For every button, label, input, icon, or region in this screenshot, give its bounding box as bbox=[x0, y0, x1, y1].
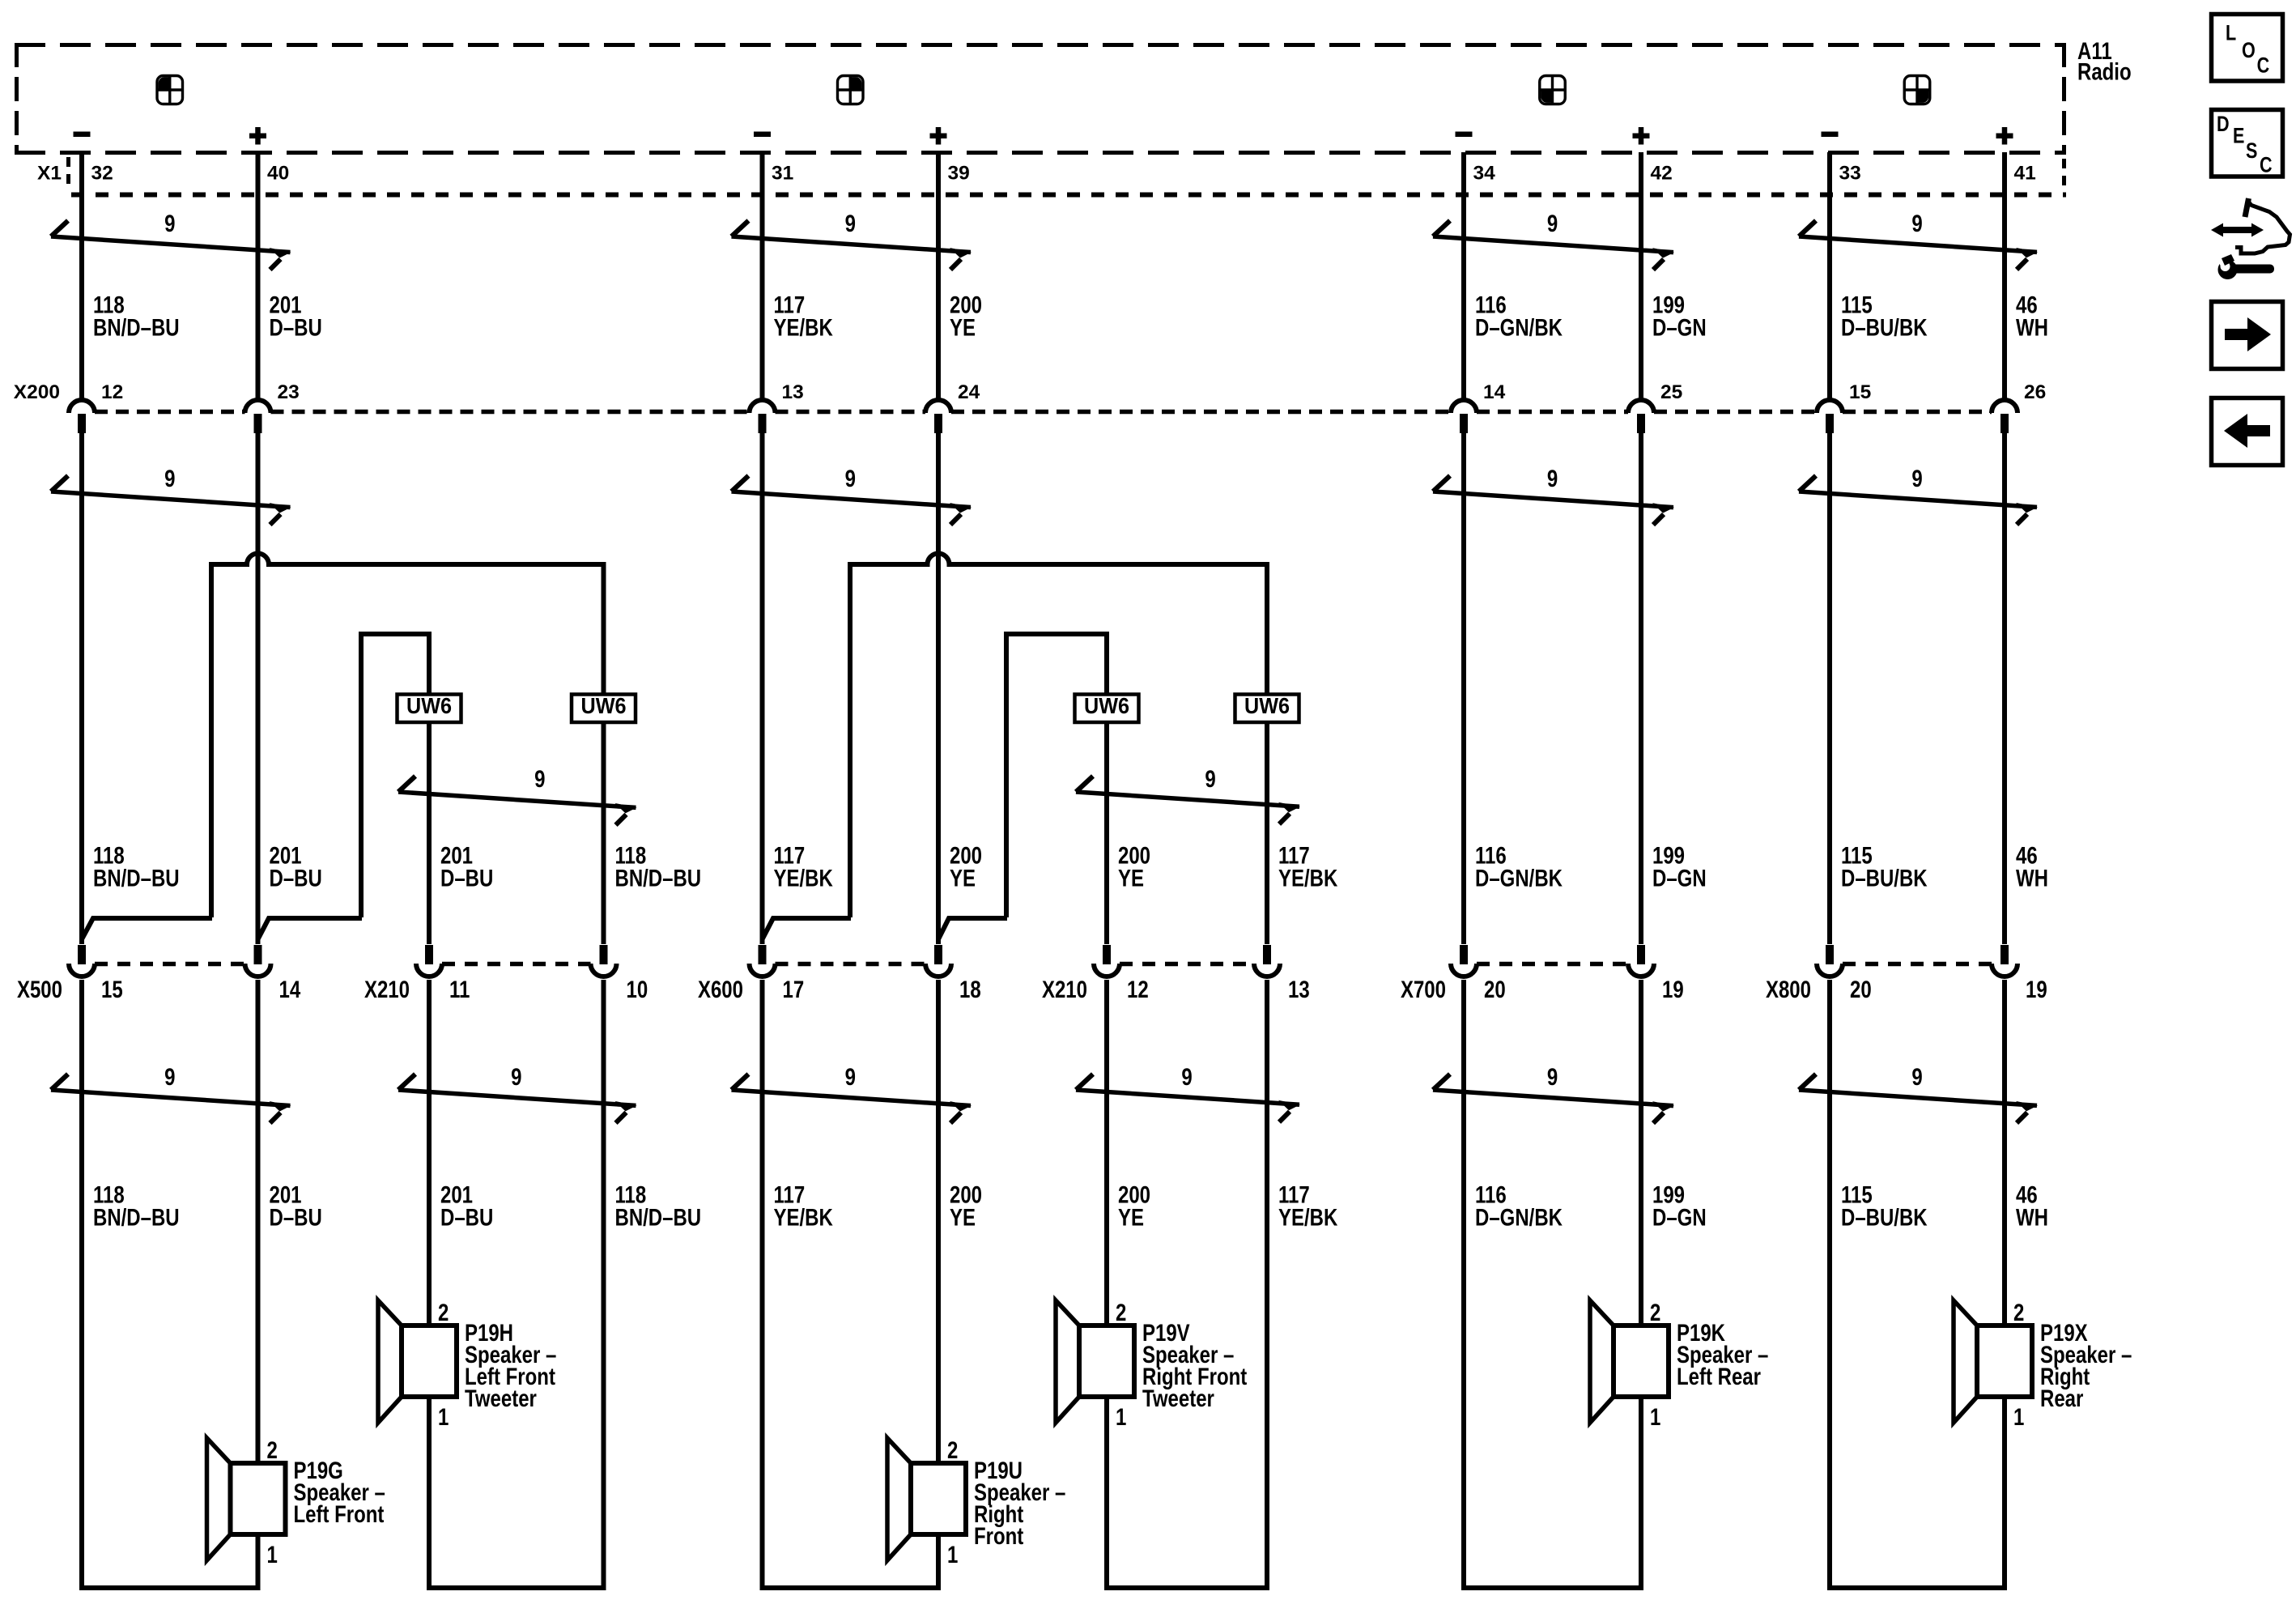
svg-text:2: 2 bbox=[267, 1436, 278, 1463]
wire label 200 YE row3 bbox=[950, 1181, 982, 1231]
twisted-pair symbol (9) row4 x530 bbox=[398, 1074, 637, 1123]
polarity minus above pin 33 bbox=[1822, 132, 1839, 138]
svg-text:1: 1 bbox=[438, 1402, 449, 1430]
polarity minus above pin 31 bbox=[754, 132, 771, 138]
wire label 118 BN/D–BU row2 bbox=[615, 841, 702, 891]
svg-text:D–GN: D–GN bbox=[1652, 1203, 1707, 1231]
svg-text:Rear: Rear bbox=[2040, 1384, 2084, 1411]
wire label 200 YE row3 bbox=[1118, 1181, 1150, 1231]
wire label 118 BN/D–BU row3 bbox=[93, 1181, 180, 1231]
speaker P19X Speaker - Right Rear bbox=[1954, 1300, 2032, 1423]
polarity plus above pin 40 bbox=[249, 134, 266, 139]
polarity plus above pin 42 bbox=[1633, 134, 1650, 139]
wire 200 branch hook to X210-12 bbox=[1006, 634, 1107, 917]
connector icon right-rear (quadrant BR) bbox=[1904, 76, 1930, 104]
connector icon left-front (quadrant TL) bbox=[157, 76, 183, 104]
connector terminal X500-15 bbox=[69, 945, 95, 977]
svg-text:2: 2 bbox=[438, 1298, 449, 1326]
svg-text:41: 41 bbox=[2014, 163, 2036, 185]
wire below UW6 x530 bbox=[427, 723, 432, 944]
connector X800 dashed line bbox=[1843, 962, 1992, 967]
connector terminal X210-10 bbox=[591, 945, 617, 977]
wire 118 BN/D-BU radio X1 to X200 bbox=[79, 152, 84, 400]
wire label 201 D–BU row3 bbox=[269, 1181, 321, 1231]
wire label 199 D–GN row3 bbox=[1652, 1181, 1707, 1231]
wire 200 X210-12 to tweeter P19V pin 2 bbox=[1104, 980, 1109, 1328]
wire 200 X600-18 to speaker P19U pin 2 bbox=[936, 980, 941, 1466]
twisted-pair symbol (9) row1 x101 bbox=[51, 221, 291, 270]
wire 118 BN/D-BU X200 down bbox=[79, 432, 84, 944]
wire 200 jog join at X600-18 bbox=[938, 918, 1007, 939]
wire 117 YE/BK X200 down bbox=[760, 432, 765, 944]
wire label 117 YE/BK row3 bbox=[1278, 1181, 1338, 1231]
svg-text:X210: X210 bbox=[1042, 975, 1087, 1002]
svg-text:23: 23 bbox=[278, 381, 300, 403]
wire below UW6 x1565 bbox=[1265, 723, 1269, 944]
svg-text:1: 1 bbox=[1650, 1402, 1660, 1430]
svg-text:9: 9 bbox=[1547, 464, 1558, 491]
svg-text:11: 11 bbox=[449, 975, 470, 1002]
wire label 117 YE/BK row1 bbox=[774, 291, 834, 341]
svg-text:YE: YE bbox=[1118, 864, 1144, 891]
svg-text:9: 9 bbox=[845, 1062, 856, 1090]
svg-text:UW6: UW6 bbox=[406, 693, 452, 719]
wire label 117 YE/BK row2 bbox=[774, 841, 834, 891]
connector X200 dashed line bbox=[95, 410, 1992, 415]
wire label 117 YE/BK row2 bbox=[1278, 841, 1338, 891]
wire label 117 YE/BK row3 bbox=[774, 1181, 834, 1231]
svg-text:9: 9 bbox=[534, 764, 545, 792]
svg-text:YE: YE bbox=[950, 1203, 976, 1231]
svg-text:D: D bbox=[2217, 113, 2230, 137]
svg-text:31: 31 bbox=[772, 163, 793, 185]
svg-text:YE/BK: YE/BK bbox=[1278, 1203, 1338, 1231]
wire 200 YE radio X1 to X200 bbox=[936, 152, 941, 400]
speaker P19U Speaker - Right Front bbox=[887, 1438, 966, 1560]
svg-text:X800: X800 bbox=[1766, 975, 1811, 1002]
wire 201 D-BU X200 down bbox=[256, 432, 261, 944]
svg-text:YE/BK: YE/BK bbox=[1278, 864, 1338, 891]
wire 201 D-BU radio X1 to X200 bbox=[256, 152, 261, 400]
label P19X Speaker - Right Rear bbox=[2040, 1318, 2132, 1411]
wire label 118 BN/D–BU row2 bbox=[93, 841, 180, 891]
return wire P19H pin 1 to 118 (X210-10) bbox=[429, 1398, 604, 1588]
svg-text:D–BU: D–BU bbox=[269, 1203, 321, 1231]
svg-text:26: 26 bbox=[2024, 381, 2046, 403]
svg-text:9: 9 bbox=[1181, 1062, 1192, 1090]
wire label 200 YE row2 bbox=[950, 841, 982, 891]
connector X200 terminal pin 25 bbox=[1628, 400, 1654, 433]
wire 118 branch rail to X210-10 (with hop over 201) bbox=[211, 554, 604, 918]
svg-text:YE/BK: YE/BK bbox=[774, 1203, 834, 1231]
twisted-pair symbol (9) row4 x1367 bbox=[1076, 1074, 1300, 1122]
twisted-pair symbol (9) row4 x101 bbox=[51, 1074, 291, 1124]
svg-text:BN/D–BU: BN/D–BU bbox=[93, 1203, 180, 1231]
svg-text:D–GN/BK: D–GN/BK bbox=[1475, 1203, 1563, 1231]
connector icon right-front (quadrant TR) bbox=[838, 76, 864, 104]
svg-text:BN/D–BU: BN/D–BU bbox=[615, 864, 702, 891]
svg-text:E: E bbox=[2233, 124, 2244, 148]
return wire P19K pin 1 to 116 bbox=[1464, 1398, 1641, 1588]
option connector UW6 at x1565 bbox=[1235, 693, 1299, 722]
connector terminal X800-20 bbox=[1817, 945, 1843, 977]
connector X200 terminal pin 15 bbox=[1817, 400, 1843, 433]
svg-text:12: 12 bbox=[1127, 975, 1149, 1002]
connector X200 terminal pin 12 bbox=[69, 400, 95, 433]
svg-text:C: C bbox=[2260, 153, 2273, 177]
wire label 201 D–BU row2 bbox=[440, 841, 493, 891]
svg-text:2: 2 bbox=[1116, 1298, 1126, 1326]
svg-text:YE/BK: YE/BK bbox=[774, 864, 834, 891]
label P19H Speaker - Left Front Tweeter bbox=[465, 1318, 556, 1411]
label P19V Speaker - Right Front Tweeter bbox=[1142, 1318, 1247, 1411]
svg-text:9: 9 bbox=[845, 464, 856, 491]
wire label 115 D–BU/BK row3 bbox=[1841, 1181, 1928, 1231]
svg-text:13: 13 bbox=[782, 381, 804, 403]
svg-text:X200: X200 bbox=[14, 381, 60, 403]
twisted-pair symbol (9) row4 x941 bbox=[732, 1074, 972, 1124]
wire 118 X210-10 down to tweeter return bbox=[602, 980, 606, 1590]
connector terminal X700-19 bbox=[1628, 945, 1654, 977]
svg-text:O: O bbox=[2242, 39, 2256, 63]
svg-text:20: 20 bbox=[1850, 975, 1872, 1002]
wire label 115 D–BU/BK row2 bbox=[1841, 841, 1928, 891]
wire 199 D-GN radio X1 to X200 bbox=[1639, 152, 1643, 400]
icon LOC box bbox=[2212, 15, 2283, 82]
connector X210 dashed line (11-10) bbox=[442, 962, 591, 967]
wire 117 branch rail to X210-13 (with hop over 200) bbox=[850, 554, 1267, 918]
wire 118 X500-15 to splice/speaker return bbox=[79, 980, 84, 1590]
svg-text:15: 15 bbox=[101, 975, 123, 1002]
svg-text:WH: WH bbox=[2016, 313, 2048, 341]
svg-text:X700: X700 bbox=[1401, 975, 1446, 1002]
wire 201 X210-11 to tweeter P19H pin 2 bbox=[427, 980, 432, 1328]
svg-text:17: 17 bbox=[782, 975, 804, 1002]
svg-text:BN/D–BU: BN/D–BU bbox=[615, 1203, 702, 1231]
svg-text:34: 34 bbox=[1473, 163, 1496, 185]
svg-text:1: 1 bbox=[1116, 1402, 1126, 1430]
wire label 201 D–BU row3 bbox=[440, 1181, 493, 1231]
wire 117 jog join at X600-17 bbox=[763, 918, 852, 939]
svg-text:D–GN: D–GN bbox=[1652, 313, 1707, 341]
label P19U Speaker - Right Front bbox=[974, 1456, 1065, 1549]
label P19G Speaker - Left Front bbox=[293, 1456, 385, 1527]
connector X200 terminal pin 13 bbox=[750, 400, 776, 433]
connector icon left-rear (quadrant BL) bbox=[1540, 76, 1566, 104]
svg-text:Tweeter: Tweeter bbox=[1142, 1384, 1214, 1411]
connector X200 terminal pin 14 bbox=[1451, 400, 1477, 433]
svg-text:9: 9 bbox=[1911, 464, 1922, 491]
wire 116 D-GN/BK radio X1 to X200 bbox=[1461, 152, 1466, 400]
polarity minus above pin 34 bbox=[1456, 132, 1473, 138]
twisted-pair symbol (9) row1 x2260 bbox=[1799, 221, 2038, 270]
svg-text:1: 1 bbox=[2013, 1402, 2024, 1430]
svg-text:D–BU/BK: D–BU/BK bbox=[1841, 313, 1928, 341]
wire label 46 WH row2 bbox=[2016, 841, 2048, 891]
svg-text:D–GN: D–GN bbox=[1652, 864, 1707, 891]
twisted-pair symbol (9) row4 x1808 bbox=[1433, 1074, 1674, 1124]
twisted-pair symbol (9) row4 x2260 bbox=[1799, 1074, 2038, 1123]
svg-text:Front: Front bbox=[974, 1521, 1023, 1549]
svg-text:D–BU/BK: D–BU/BK bbox=[1841, 864, 1928, 891]
speaker P19V Speaker - Right Front Tweeter bbox=[1056, 1300, 1134, 1423]
svg-text:18: 18 bbox=[959, 975, 981, 1002]
wire label 46 WH row3 bbox=[2016, 1181, 2048, 1231]
svg-text:9: 9 bbox=[1547, 209, 1558, 236]
wire 116 X700-20 down to speaker return bbox=[1461, 980, 1466, 1590]
wire label 115 D–BU/BK row1 bbox=[1841, 291, 1928, 341]
svg-text:YE: YE bbox=[950, 313, 976, 341]
connector terminal X600-18 bbox=[925, 945, 951, 977]
svg-text:BN/D–BU: BN/D–BU bbox=[93, 864, 180, 891]
option connector UW6 at x745 bbox=[572, 693, 636, 722]
svg-text:S: S bbox=[2246, 139, 2257, 164]
connector terminal X210-13 bbox=[1254, 945, 1280, 977]
wire label 200 YE row2 bbox=[1118, 841, 1150, 891]
svg-text:UW6: UW6 bbox=[1244, 693, 1290, 719]
option connector UW6 at x1367 bbox=[1075, 693, 1139, 722]
return wire P19V pin 1 to 117 (X210-13) bbox=[1107, 1398, 1267, 1588]
wire label 199 D–GN row2 bbox=[1652, 841, 1707, 891]
svg-text:X500: X500 bbox=[17, 975, 62, 1002]
svg-text:D–BU: D–BU bbox=[269, 313, 321, 341]
svg-text:2: 2 bbox=[947, 1436, 958, 1463]
svg-text:24: 24 bbox=[958, 381, 980, 403]
connector X1 dotted line bbox=[69, 157, 2067, 195]
wire 115 D-BU/BK radio X1 to X200 bbox=[1827, 152, 1832, 400]
svg-text:9: 9 bbox=[511, 1062, 521, 1090]
svg-text:14: 14 bbox=[1483, 381, 1506, 403]
wire below UW6 x745 bbox=[602, 723, 606, 944]
connector terminal X210-12 bbox=[1094, 945, 1120, 977]
return wire P19G pin 1 to 118 bbox=[82, 1536, 258, 1588]
wire 201 X500-14 to speaker P19G pin 2 bbox=[256, 980, 261, 1466]
svg-text:32: 32 bbox=[91, 163, 113, 185]
option connector UW6 at x530 bbox=[398, 693, 461, 722]
svg-text:39: 39 bbox=[948, 163, 970, 185]
connector X200 terminal pin 24 bbox=[925, 400, 951, 433]
svg-text:D–BU: D–BU bbox=[269, 864, 321, 891]
svg-text:Left Front: Left Front bbox=[293, 1500, 384, 1527]
wire label 46 WH row1 bbox=[2016, 291, 2048, 341]
wire label 199 D–GN row1 bbox=[1652, 291, 1707, 341]
wire label 118 BN/D–BU row1 bbox=[93, 291, 180, 341]
connector terminal X700-20 bbox=[1451, 945, 1477, 977]
polarity plus above pin 41 bbox=[1996, 134, 2013, 139]
svg-text:9: 9 bbox=[1547, 1062, 1558, 1090]
svg-text:X600: X600 bbox=[698, 975, 743, 1002]
svg-text:WH: WH bbox=[2016, 864, 2048, 891]
connector X600 dashed line bbox=[776, 962, 926, 967]
wire below UW6 x1367 bbox=[1104, 723, 1109, 944]
connector terminal X500-14 bbox=[245, 945, 271, 977]
svg-text:9: 9 bbox=[1205, 764, 1215, 792]
connector terminal X800-19 bbox=[1992, 945, 2018, 977]
svg-text:UW6: UW6 bbox=[1084, 693, 1129, 719]
wire label 201 D–BU row1 bbox=[269, 291, 321, 341]
svg-text:UW6: UW6 bbox=[581, 693, 627, 719]
connector terminal X210-11 bbox=[416, 945, 442, 977]
twisted-pair symbol (9) row1 x1808 bbox=[1433, 221, 1674, 270]
icon arrow right box bbox=[2212, 302, 2283, 369]
return wire P19X pin 1 to 115 bbox=[1830, 1398, 2005, 1588]
svg-text:9: 9 bbox=[164, 464, 175, 491]
svg-text:WH: WH bbox=[2016, 1203, 2048, 1231]
svg-text:9: 9 bbox=[1911, 209, 1922, 236]
svg-text:19: 19 bbox=[2026, 975, 2047, 1002]
svg-text:D–BU/BK: D–BU/BK bbox=[1841, 1203, 1928, 1231]
speaker P19K Speaker - Left Rear bbox=[1590, 1300, 1669, 1423]
connector X200 terminal pin 26 bbox=[1992, 400, 2018, 433]
svg-text:YE: YE bbox=[1118, 1203, 1144, 1231]
wire label 118 BN/D–BU row3 bbox=[615, 1181, 702, 1231]
svg-text:1: 1 bbox=[267, 1540, 278, 1568]
polarity minus above pin 32 bbox=[74, 132, 91, 138]
svg-text:C: C bbox=[2257, 53, 2270, 78]
svg-text:Left Rear: Left Rear bbox=[1677, 1362, 1761, 1389]
icon vehicle with arrow and wrench bbox=[2211, 198, 2290, 279]
svg-text:D–BU: D–BU bbox=[440, 1203, 493, 1231]
svg-text:42: 42 bbox=[1651, 163, 1673, 185]
wire 116 D-GN/BK X200 down bbox=[1461, 432, 1466, 944]
twisted-pair symbol (9) row3 x530 bbox=[398, 777, 637, 825]
wire 200 YE X200 down bbox=[936, 432, 941, 944]
connector X200 terminal pin 23 bbox=[245, 400, 271, 433]
svg-text:Radio: Radio bbox=[2077, 57, 2132, 85]
svg-text:15: 15 bbox=[1849, 381, 1871, 403]
svg-text:BN/D–BU: BN/D–BU bbox=[93, 313, 180, 341]
svg-text:10: 10 bbox=[627, 975, 648, 1002]
twisted-pair symbol (9) row2 x941 bbox=[732, 476, 972, 526]
connector terminal X600-17 bbox=[750, 945, 776, 977]
polarity plus above pin 39 bbox=[930, 134, 947, 139]
label A11 Radio bbox=[2077, 36, 2132, 85]
svg-text:2: 2 bbox=[2013, 1298, 2024, 1326]
svg-text:X1: X1 bbox=[37, 163, 62, 185]
wire label 116 D–GN/BK row2 bbox=[1475, 841, 1563, 891]
connector X700 dashed line bbox=[1477, 962, 1628, 967]
svg-text:33: 33 bbox=[1839, 163, 1861, 185]
wire 199 X700-19 to speaker P19K pin 2 bbox=[1639, 980, 1643, 1328]
svg-text:D–GN/BK: D–GN/BK bbox=[1475, 313, 1563, 341]
twisted-pair symbol (9) row1 x941 bbox=[732, 221, 972, 270]
svg-text:25: 25 bbox=[1660, 381, 1682, 403]
wire 46 WH radio X1 to X200 bbox=[2002, 152, 2007, 400]
connector X210 dashed line (12-13) bbox=[1120, 962, 1254, 967]
connector X500 dashed line bbox=[95, 962, 245, 967]
svg-text:D–BU: D–BU bbox=[440, 864, 493, 891]
svg-text:12: 12 bbox=[101, 381, 123, 403]
wire 117 YE/BK radio X1 to X200 bbox=[760, 152, 765, 400]
twisted-pair symbol (9) row2 x101 bbox=[51, 476, 291, 526]
wire 117 X210-13 down to tweeter return bbox=[1265, 980, 1269, 1590]
wire label 200 YE row1 bbox=[950, 291, 982, 341]
svg-text:9: 9 bbox=[164, 1062, 175, 1090]
label P19K Speaker - Left Rear bbox=[1677, 1318, 1768, 1389]
svg-text:9: 9 bbox=[845, 209, 856, 236]
wire label 201 D–BU row2 bbox=[269, 841, 321, 891]
twisted-pair symbol (9) row2 x1808 bbox=[1433, 476, 1674, 526]
speaker P19G Speaker - Left Front bbox=[207, 1438, 286, 1560]
icon DESC box bbox=[2212, 110, 2283, 178]
wire 118 jog join at X500-15 bbox=[82, 918, 212, 939]
svg-text:13: 13 bbox=[1288, 975, 1310, 1002]
twisted-pair symbol (9) row2 x2260 bbox=[1799, 476, 2038, 525]
svg-text:D–GN/BK: D–GN/BK bbox=[1475, 864, 1563, 891]
svg-text:L: L bbox=[2226, 21, 2236, 45]
svg-text:19: 19 bbox=[1662, 975, 1684, 1002]
twisted-pair symbol (9) row3 x1367 bbox=[1076, 777, 1300, 824]
wire 115 D-BU/BK X200 down bbox=[1827, 432, 1832, 944]
speaker P19H Speaker - Left Front Tweeter bbox=[378, 1300, 457, 1423]
svg-text:Tweeter: Tweeter bbox=[465, 1384, 537, 1411]
svg-text:9: 9 bbox=[164, 209, 175, 236]
wire 201 branch hook to X210-11 bbox=[361, 634, 429, 917]
svg-text:YE/BK: YE/BK bbox=[774, 313, 834, 341]
wire label 116 D–GN/BK row1 bbox=[1475, 291, 1563, 341]
icon arrow left box bbox=[2212, 398, 2283, 466]
svg-text:14: 14 bbox=[278, 975, 300, 1002]
wire 199 D-GN X200 down bbox=[1639, 432, 1643, 944]
svg-text:X210: X210 bbox=[364, 975, 410, 1002]
wire 46 WH X200 down bbox=[2002, 432, 2007, 944]
wire 46 X800-19 to speaker P19X pin 2 bbox=[2002, 980, 2007, 1328]
svg-text:9: 9 bbox=[1911, 1062, 1922, 1090]
wire 117 X600-17 down to speaker return bbox=[760, 980, 765, 1590]
svg-text:YE: YE bbox=[950, 864, 976, 891]
wire label 116 D–GN/BK row3 bbox=[1475, 1181, 1563, 1231]
svg-text:1: 1 bbox=[947, 1540, 958, 1568]
svg-text:20: 20 bbox=[1484, 975, 1506, 1002]
wire 201 jog join at X500-14 bbox=[258, 918, 363, 939]
radio A11 component dashed box bbox=[15, 43, 2066, 155]
svg-text:40: 40 bbox=[267, 163, 289, 185]
svg-text:2: 2 bbox=[1650, 1298, 1660, 1326]
return wire P19U pin 1 to 117 bbox=[763, 1536, 939, 1588]
wire 115 X800-20 down to speaker return bbox=[1827, 980, 1832, 1590]
